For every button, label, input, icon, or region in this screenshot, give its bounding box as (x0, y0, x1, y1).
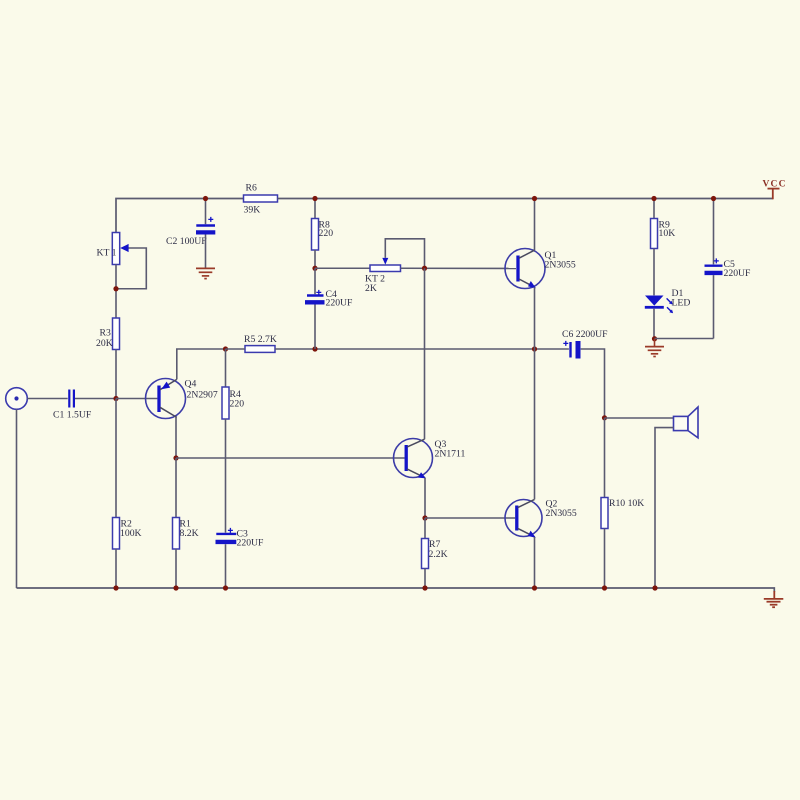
resistor R4 (222, 349, 244, 419)
svg-text:R5 2.7K: R5 2.7K (244, 334, 277, 345)
node R9 top junction (651, 196, 656, 201)
node speaker junction (602, 415, 607, 420)
svg-text:8.2K: 8.2K (180, 528, 199, 539)
wire node to R2 (115, 399, 117, 518)
svg-text:220: 220 (230, 399, 245, 410)
node R2 ground junction (113, 585, 118, 590)
wire KT2 to Q1 base (401, 267, 517, 269)
svg-text:2N3055: 2N3055 (545, 260, 576, 271)
capacitor C5 (705, 199, 752, 339)
transistor Q3 (394, 439, 466, 479)
wire R1 to ground rail (175, 549, 177, 588)
potentiometer KT1 (97, 233, 120, 265)
wire R5 leads (226, 348, 316, 350)
node Q1 emitter junction (532, 346, 537, 351)
node C2 top junction (203, 196, 208, 201)
capacitor C4 (305, 268, 353, 349)
capacitor C3 (216, 528, 265, 549)
node C5 top junction (711, 196, 716, 201)
resistor R2 (113, 518, 142, 550)
wire Q3 emitter to Q2 base (425, 517, 515, 519)
capacitor C1 (53, 390, 92, 421)
wire bottom ground rail (17, 588, 775, 599)
node speaker ground junction (652, 585, 657, 590)
node Q2 emitter ground junction (532, 585, 537, 590)
wire Q1 collector to rail (534, 199, 536, 251)
VCC power symbol (763, 180, 787, 200)
capacitor C2 (166, 199, 215, 268)
transistor Q4 (146, 379, 218, 419)
svg-text:220UF: 220UF (237, 538, 265, 549)
input jack J1 (6, 388, 28, 410)
wire top rail left segment (116, 199, 244, 233)
node C3 ground junction (223, 585, 228, 590)
node Q1 collector junction (532, 196, 537, 201)
resistor R3 (96, 318, 120, 350)
node R7 ground junction (422, 585, 427, 590)
svg-text:C6 2200UF: C6 2200UF (562, 329, 608, 340)
wire speaker return (655, 428, 674, 588)
wire R3 to input node (115, 350, 117, 399)
wire Q2 collector up (534, 349, 536, 499)
transistor Q2 (505, 499, 577, 538)
wire KT1 wiper (116, 244, 146, 289)
node R8 top junction (312, 196, 317, 201)
svg-text:20K: 20K (96, 338, 113, 349)
node LED ground junction (652, 336, 657, 341)
svg-text:R3: R3 (100, 328, 111, 339)
capacitor C6 (562, 329, 608, 359)
svg-text:2K: 2K (365, 283, 377, 294)
speaker LS1 (674, 407, 699, 438)
ground bottom right (764, 599, 784, 607)
diode D1 LED (645, 288, 691, 313)
svg-text:100K: 100K (120, 528, 142, 539)
wire jack to ground rail (16, 409, 18, 588)
resistor R10 (601, 418, 644, 588)
ground below D1 (645, 339, 664, 357)
svg-text:10K: 10K (659, 228, 676, 239)
node input junction (113, 396, 118, 401)
wire top rail main segment (278, 198, 773, 200)
svg-text:220UF: 220UF (724, 268, 752, 279)
wire C1 to node (75, 398, 116, 400)
node R10 ground junction (602, 585, 607, 590)
wire Q4 collector down (175, 417, 177, 458)
svg-text:C1 1.5UF: C1 1.5UF (53, 410, 92, 421)
svg-text:39K: 39K (244, 205, 261, 216)
ground below C2 (196, 268, 215, 278)
svg-text:2N1711: 2N1711 (435, 449, 466, 460)
wire jack to C1 (27, 398, 67, 400)
wire Q4 collector to Q3 base (176, 457, 405, 459)
node R8 bottom junction (312, 266, 317, 271)
resistor R8 (312, 199, 334, 269)
resistor R6 (244, 183, 278, 216)
svg-text:2N3055: 2N3055 (546, 508, 577, 519)
wire C6 to speaker node (581, 349, 605, 418)
wire C3 to ground rail (225, 544, 227, 588)
resistor R7 (422, 518, 448, 588)
svg-text:220: 220 (319, 228, 334, 239)
wire D1 to ground node (653, 309, 655, 339)
wire Q3 collector up (424, 268, 426, 439)
wire KT2 wiper (382, 239, 424, 268)
svg-text:2.2K: 2.2K (429, 549, 448, 560)
svg-text:LED: LED (672, 298, 691, 309)
wire KT1 to R3 (115, 265, 117, 319)
svg-text:R6: R6 (246, 183, 257, 194)
node R1 ground junction (173, 585, 178, 590)
wire Q3 emitter down (424, 478, 426, 518)
resistor R9 (651, 199, 676, 296)
wire R4 to C3 (225, 419, 227, 533)
resistor R1 (173, 458, 199, 549)
node KT2 wiper junction (422, 266, 427, 271)
node R5 left junction (223, 346, 228, 351)
potentiometer KT2 (315, 265, 401, 294)
svg-text:220UF: 220UF (326, 298, 354, 309)
transistor Q1 (505, 249, 576, 289)
svg-text:C2 100UF: C2 100UF (166, 236, 207, 247)
node C4 bottom junction (312, 346, 317, 351)
wire Q2 emitter to ground rail (534, 537, 536, 588)
wire ground node to C5 (655, 338, 714, 340)
svg-text:Q4: Q4 (185, 379, 197, 390)
svg-text:KT 1: KT 1 (97, 248, 117, 259)
svg-text:R10 10K: R10 10K (609, 498, 644, 509)
wire midrail C4 to C6 (315, 348, 569, 350)
resistor R5 (244, 334, 277, 352)
wire R2 to ground rail (115, 549, 117, 588)
node KT1 wiper junction (113, 286, 118, 291)
wire speaker node to speaker (605, 417, 674, 419)
wire node to Q4 base (116, 398, 157, 400)
svg-text:2N2907: 2N2907 (187, 390, 218, 401)
node Q3 emitter junction (422, 515, 427, 520)
node Q4 collector junction (173, 455, 178, 460)
wire Q4 emitter up (177, 349, 226, 379)
wire Q1 emitter down (534, 287, 536, 349)
